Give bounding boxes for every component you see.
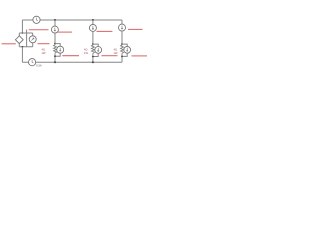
wire right drop upper	[121, 20, 123, 24]
node top mid	[54, 19, 56, 21]
wire loop top	[19, 32, 32, 34]
wire mid bottom drop	[54, 56, 56, 62]
resistor R2	[91, 44, 94, 56]
node mid parallel top	[54, 43, 56, 45]
resistor R3	[121, 44, 124, 56]
wire red left	[2, 43, 16, 45]
wire left lower drop	[21, 47, 23, 62]
svg-text:1W: 1W	[42, 51, 46, 55]
wire rmid drop upper	[92, 20, 94, 24]
wire red S2 to mid node	[38, 43, 50, 45]
svg-text:0.5A: 0.5A	[36, 64, 42, 68]
wire red I3 right	[97, 30, 113, 32]
wire red I5 right	[128, 28, 143, 30]
resistor R1	[54, 44, 57, 57]
wire top bus	[22, 19, 122, 21]
node bottom mid	[54, 61, 56, 63]
wire loop middle branch	[26, 30, 28, 47]
node top right-mid	[92, 19, 94, 21]
node mid parallel bottom	[54, 55, 56, 57]
wire rmid drop lower	[92, 31, 94, 44]
wire circle S2 bottom	[32, 43, 34, 47]
wire loop left upper	[18, 33, 20, 36]
node right parallel bottom	[121, 56, 123, 58]
wire rmid parallel top	[93, 44, 98, 46]
wire mid parallel top	[55, 44, 60, 47]
wire loop left lower	[18, 44, 20, 47]
node rmid parallel bottom	[92, 56, 94, 58]
wire circle S2 top	[32, 33, 34, 36]
source I5 (right top circle)	[119, 24, 126, 31]
node right parallel top	[121, 43, 123, 45]
source I6 (right parallel circle)	[124, 46, 131, 53]
source I3 (right-mid top circle)	[89, 24, 96, 31]
svg-text:1W: 1W	[84, 51, 88, 55]
source S2 (left block right circle)	[29, 36, 36, 43]
wire right bottom drop	[121, 56, 123, 62]
svg-text:1W: 1W	[114, 51, 118, 55]
wire red I4 right	[102, 55, 118, 57]
wire red I6 right	[132, 55, 148, 57]
source I1 (middle top circle)	[51, 26, 58, 33]
wire left drop	[21, 20, 23, 33]
wire mid parallel bottom	[55, 53, 60, 56]
source V1 (series circle on top bus)	[33, 16, 40, 23]
wire mid drop lower	[54, 33, 56, 44]
source I2 (middle parallel circle)	[57, 46, 64, 53]
wire right drop lower	[121, 31, 123, 44]
node loop bottom	[22, 46, 24, 48]
wire rmid bottom drop	[92, 57, 94, 63]
wire rmid parallel bottom	[93, 53, 98, 56]
wire red I1 right	[58, 31, 72, 33]
node bottom right-mid	[92, 61, 94, 63]
node rmid parallel top	[92, 43, 94, 45]
dependent source S1 (left block diamond)	[15, 36, 23, 44]
source I4 (right-mid parallel circle)	[95, 47, 102, 54]
wire bottom bus	[22, 61, 122, 63]
source A1 (series circle on bottom bus)	[28, 59, 35, 66]
wire right parallel top	[122, 44, 127, 46]
node loop top	[22, 32, 24, 34]
wire red loop to I1	[29, 29, 49, 31]
wire mid drop upper	[54, 20, 56, 26]
wire right parallel bottom	[122, 53, 127, 56]
wire loop bottom	[19, 46, 32, 48]
wire red I2 right	[62, 55, 79, 57]
